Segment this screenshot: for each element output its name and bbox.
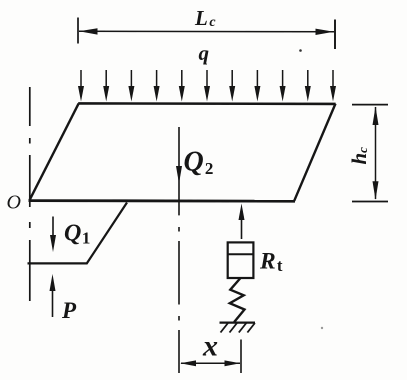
svg-text:q: q — [199, 41, 210, 65]
svg-text:P: P — [61, 298, 77, 323]
svg-text:O: O — [7, 192, 21, 214]
svg-text:x: x — [202, 330, 218, 363]
